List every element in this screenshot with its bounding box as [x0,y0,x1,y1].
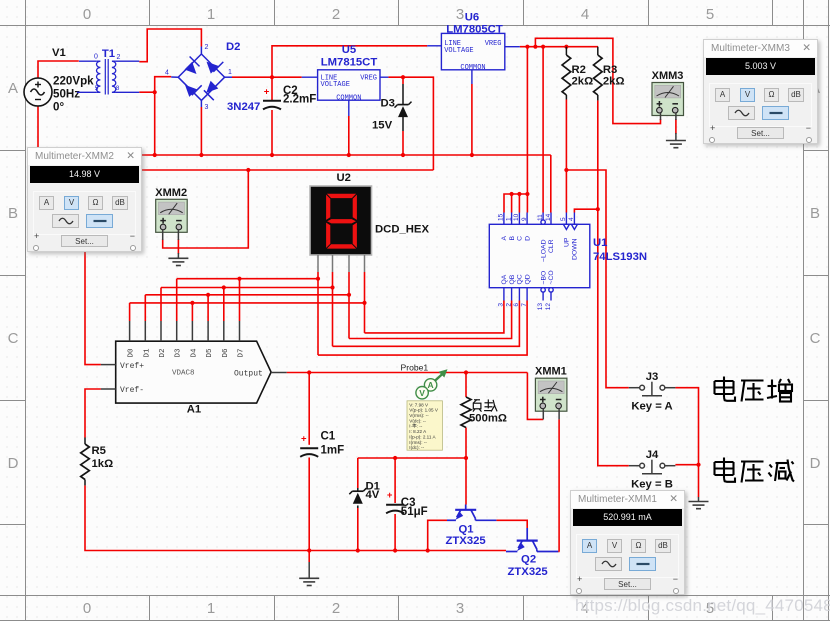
junction D input [525,192,529,196]
wire bridge pin1 to U5 LINE (raw DC node) [232,76,302,78]
wire R2 bottom to UP pin [565,100,567,213]
svg-text:D6: D6 [222,348,230,358]
wire C2 bottom to ground bus [271,110,273,155]
wire D5 riser [207,295,209,321]
wire Q1 collector to Q2 base [496,520,527,528]
zener diode D1 [357,488,359,491]
svg-text:+: + [301,434,307,445]
bracket U2 pin2 to U1 QC [333,301,520,347]
junction C2 top [270,75,274,79]
bracket U2 pin4 to U1 QA [365,301,504,333]
multimeter icon XMM2 [155,187,187,233]
weave horizontal line D3/D7 to U2 pin1 [177,278,318,280]
svg-text:Vref+: Vref+ [120,362,144,371]
ground below C1 rail [308,562,310,578]
svg-text:T1: T1 [102,48,115,60]
svg-text:1: 1 [207,600,215,617]
wire D2 riser [160,288,162,322]
svg-text:2.2mF: 2.2mF [283,93,316,105]
svg-text:VREG: VREG [360,75,377,83]
svg-text:1mF: 1mF [321,445,345,457]
svg-text:D4: D4 [190,348,198,358]
wire T1 pin3 to node [139,91,154,93]
svg-text:D1: D1 [143,348,151,358]
transistor Q1 ZTX325 [447,505,496,521]
svg-text:1: 1 [228,69,232,76]
wire C1 top column [308,373,310,445]
svg-text:5: 5 [560,217,567,221]
svg-text:11: 11 [537,214,544,221]
junction B input [510,192,514,196]
junction U2 pin4 col [362,301,366,305]
svg-text:V1: V1 [52,47,66,59]
wire D1/C3 top line [358,457,466,459]
XMM3 lead stubs [660,113,662,120]
svg-text:QC: QC [517,274,524,284]
wire XMM1 minus down to Q2 collector [558,419,560,551]
svg-text:Q1: Q1 [458,524,473,536]
wire R5 bottom to ground rail [85,485,506,550]
junction XMM3 sense [533,45,537,49]
big label dianyazeng (voltage up) [715,377,736,401]
wire bridge pin3 to ground bus [200,107,202,155]
wire J3 right to common ground [675,388,698,465]
svg-text:V(dc): --: V(dc): -- [409,418,426,423]
wire bridge pin4 to node and ground bus [155,77,172,155]
csdn watermark [575,596,830,616]
wire raw DC up-over to U6 LINE [272,46,427,101]
U2 display pins [317,255,319,272]
svg-text:XMM3: XMM3 [652,70,684,82]
svg-text:CLR: CLR [548,239,555,253]
svg-text:15V: 15V [372,120,393,132]
switch J4 [629,460,676,474]
wire D3 leads [402,77,404,84]
multimeter dialog XMM2 [27,147,142,252]
bridge rectifier D2 [171,47,232,108]
svg-text:74LS193N: 74LS193N [593,251,647,263]
wire U5 VREG +15V to D3 and down-around [388,77,433,170]
svg-text:2: 2 [117,54,121,61]
+15V return line to XMM2 [135,169,433,171]
svg-text:0°: 0° [53,101,64,114]
svg-text:C: C [810,330,821,347]
svg-text:XMM2: XMM2 [155,187,187,199]
resistor R2 [565,47,567,55]
wire bus down to CLR pin [550,155,552,213]
wire DOWN pin link [574,209,597,212]
junction U2 pin2 col [330,285,334,289]
svg-text:+: + [264,86,270,97]
wire Q2 collector red stub [558,551,559,553]
junction U2 pin1 col [316,277,320,281]
svg-text:ZTX325: ZTX325 [508,566,548,578]
svg-text:1: 1 [207,6,215,23]
voltage regulator U6 LM7805CT [427,33,520,84]
svg-text:D0: D0 [128,348,136,358]
svg-text:4: 4 [568,217,575,221]
svg-text:A: A [428,380,434,390]
wire D1 bottom [357,508,359,551]
XMM3 minus lead red part [675,119,677,134]
svg-text:C: C [517,236,524,241]
seven segment display U2 [310,186,372,255]
switch J3 [629,382,676,396]
svg-text:51μF: 51μF [401,506,428,518]
junction D6 [222,285,226,289]
wire Vref- to R5 [85,389,101,438]
svg-text:D3: D3 [175,348,183,358]
junction C1 gnd [307,548,311,552]
junction A-D feed [525,45,529,49]
junction J3 branch [564,168,568,172]
svg-text:A: A [8,80,18,97]
svg-text:2: 2 [332,6,340,23]
svg-text:Probe1: Probe1 [401,362,429,372]
svg-text:7: 7 [521,303,528,307]
svg-text:Q2: Q2 [521,554,536,566]
svg-text:V: 7.98 V: V: 7.98 V [409,402,429,407]
svg-text:~CO: ~CO [548,270,555,284]
svg-text:4: 4 [165,70,169,77]
wire to J3 switch [566,170,628,388]
svg-text:0: 0 [94,54,98,61]
junction U5 common / bus [347,153,351,157]
svg-text:Output: Output [234,369,263,378]
multimeter icon XMM3 [652,70,684,116]
svg-text:8: 8 [116,85,120,92]
svg-text:14: 14 [545,213,552,221]
zener D1 symbol [352,490,363,492]
svg-text:D2: D2 [159,348,167,357]
svg-text:XMM1: XMM1 [535,366,567,378]
A1 pin stubs [101,321,287,389]
svg-text:10: 10 [513,213,520,221]
counter U1 74LS193N [489,213,590,301]
wire load resistor leads [465,373,467,398]
wire D0 riser [129,303,131,321]
weave horizontal line D1/D5 to U2 pin3 [145,294,349,296]
svg-text:U2: U2 [337,172,351,184]
svg-text:D3: D3 [381,98,395,110]
ground below J3/J4 [698,497,700,502]
junction C3 top [393,456,397,460]
svg-text:Key = B: Key = B [631,479,673,491]
svg-text:R5: R5 [92,445,106,457]
junction D5 [206,293,210,297]
wire T1 pin2 to bridge top [139,29,201,62]
svg-text:VOLTAGE: VOLTAGE [321,81,350,89]
svg-text:B: B [8,205,18,222]
svg-text:DCD_HEX: DCD_HEX [375,224,429,236]
wire D3 riser [176,279,178,321]
transformer T1 [77,59,139,95]
wire U6 COMMON to bus [471,84,473,155]
svg-text:C: C [8,330,19,347]
AC source V1 [24,78,52,106]
wire D6 riser [223,288,225,322]
svg-text:QB: QB [509,274,516,284]
XMM2 minus lead red [177,239,179,254]
svg-text:R2: R2 [572,64,586,76]
junction on ground bus [153,153,157,157]
svg-text:3N247: 3N247 [227,101,260,113]
svg-text:2: 2 [332,600,340,617]
wire D7 riser [239,279,241,321]
svg-text:~BO: ~BO [540,271,547,285]
capacitor C2 [263,100,281,102]
junction D3 top [401,75,405,79]
ground stem below rail [308,551,310,563]
ground below XMM3 [666,140,686,142]
transistor Q2 ZTX325 [506,528,558,552]
wire Vref+ from behind dialog [85,251,101,365]
svg-text:I(p-p): 2.11 A: I(p-p): 2.11 A [409,434,436,439]
wire C3 bottom [394,514,396,551]
svg-text:D: D [810,455,821,472]
svg-text:A: A [501,236,508,241]
svg-text:LM7805CT: LM7805CT [446,24,503,36]
svg-text:I(rms): --: I(rms): -- [409,440,427,445]
svg-text:4: 4 [581,6,589,23]
multimeter icon XMM1 [535,366,567,412]
svg-text:2kΩ: 2kΩ [603,76,625,88]
junction Q1 emitter [426,548,430,552]
svg-text:ZTX325: ZTX325 [446,535,486,547]
junction C3 bottom [393,548,397,552]
svg-text:+: + [387,490,393,501]
svg-text:COMMON: COMMON [460,64,485,72]
svg-text:LM7815CT: LM7815CT [321,57,378,69]
wire output down to XMM1 plus [527,373,543,420]
wire V1 bottom [37,106,39,148]
svg-text:9: 9 [521,217,528,221]
junction LOAD feed [541,45,545,49]
svg-text:D2: D2 [226,41,240,53]
svg-text:VOLTAGE: VOLTAGE [444,47,473,55]
svg-text:U1: U1 [593,237,607,249]
svg-text:500mΩ: 500mΩ [469,413,507,425]
junction Q1 base node [464,456,468,460]
svg-text:I: 8.22 A: I: 8.22 A [409,429,427,434]
svg-text:VDAC8: VDAC8 [172,370,195,378]
capacitor C1 [300,447,318,449]
big label dianyajian (voltage down) [715,458,736,482]
svg-text:0: 0 [83,6,91,23]
probe tooltip box [407,401,442,450]
svg-text:QD: QD [524,274,531,284]
svg-text:Vref-: Vref- [120,386,144,395]
svg-text:3: 3 [456,600,464,617]
svg-text:QA: QA [501,274,508,284]
wire R3 bottom through DOWN junction to J4 [598,100,629,465]
multimeter dialog XMM1 [570,490,685,595]
DAC A1 VDAC8 [116,341,271,403]
bracket U2 pin1 to U1 QD [318,301,527,356]
junction R2 top [564,45,568,49]
+5V rail from U6 VREG [520,46,598,48]
svg-text:2kΩ: 2kΩ [572,76,594,88]
junction DOWN pin [596,207,600,211]
ground below XMM2 [168,257,188,259]
svg-text:U5: U5 [342,44,356,56]
wire Q1 base riser [465,458,467,505]
wire XMM3 sense path [535,38,660,123]
resistor R5 [84,438,86,445]
multimeter dialog XMM3 [703,39,818,144]
junction J3/J4 ground node [696,463,700,467]
svg-text:B: B [509,236,516,241]
svg-text:50Hz: 50Hz [53,88,80,101]
resistor R3 [597,47,599,55]
junction U6 common / bus [470,153,474,157]
weave horizontal line D0/D4 to U2 pin4 [130,302,365,304]
wire D1 riser [144,295,146,321]
svg-text:3: 3 [498,303,505,307]
junction bridge-3 / bus [199,153,203,157]
junction C input [517,192,521,196]
junction U2 pin3 col [347,293,351,297]
junction load top [464,370,468,374]
svg-text:2: 2 [205,44,209,51]
zener D3 symbol [398,104,409,106]
weave horizontal line D2/D6 to U2 pin2 [161,287,333,289]
svg-text:1kΩ: 1kΩ [92,458,114,470]
U2 pin columns down to brackets [317,272,319,355]
svg-text:3: 3 [456,6,464,23]
wire XMM2 probe branch [163,170,249,248]
wire +5V down to U1 A-D inputs [504,47,527,213]
svg-text:D7: D7 [238,348,246,357]
junction C2 bottom / bus [270,153,274,157]
zener diode D3 [402,84,404,105]
svg-text:J3: J3 [646,371,659,383]
voltage regulator U5 LM7815CT [302,70,389,116]
svg-text:VREG: VREG [485,40,502,48]
svg-text:13: 13 [537,303,544,311]
svg-text:J4: J4 [646,449,659,461]
svg-text:4V: 4V [366,489,380,501]
svg-text:Key = A: Key = A [631,401,672,413]
wire C1 bottom [308,458,310,551]
svg-text:5: 5 [706,6,714,23]
svg-text:1: 1 [505,217,512,221]
svg-text:UP: UP [564,237,571,247]
svg-text:C1: C1 [321,431,336,443]
svg-text:5: 5 [95,85,99,92]
svg-text:15: 15 [498,213,505,221]
junction D1 bottom [356,548,360,552]
svg-text:6: 6 [513,303,520,307]
svg-text:A1: A1 [187,404,201,416]
svg-text:V(rms): --: V(rms): -- [409,413,429,418]
load resistor 500mohm [461,397,471,428]
svg-text:0: 0 [83,600,91,617]
junction T1 sec low / bridge-4 [153,90,157,94]
junction D3 bottom / bus [401,153,405,157]
junction C1 top [307,370,311,374]
svg-text:D: D [8,455,19,472]
svg-text:U6: U6 [465,12,479,24]
svg-text:D: D [524,236,531,241]
svg-text:12: 12 [545,303,552,311]
wire V1 top to T1 pin0 [38,61,79,78]
svg-text:R3: R3 [603,64,617,76]
wire J4 right to ground [675,464,698,466]
svg-text:D5: D5 [206,348,214,358]
wire +5V down to ~LOAD pin [542,47,544,213]
junction D4 [190,301,194,305]
svg-text:COMMON: COMMON [336,95,361,103]
svg-text:V(p-p): 1.05 V: V(p-p): 1.05 V [409,408,439,413]
capacitor C3 [386,504,404,506]
svg-text:3: 3 [205,104,209,111]
svg-text:V: V [419,388,425,398]
wire D4 riser [191,303,193,321]
svg-text:220Vpk: 220Vpk [53,75,94,88]
label fuzai (load) glyphs [473,399,497,411]
bracket U2 pin3 to U1 QB [349,301,512,339]
svg-text:2: 2 [505,303,512,307]
svg-text:DOWN: DOWN [572,238,579,260]
svg-text:B: B [810,205,820,222]
junction D7 [237,277,241,281]
wire Q1 emitter to rail [428,520,447,550]
svg-text:I(dc): --: I(dc): -- [409,445,424,450]
junction XMM2 branch [246,168,250,172]
wire U5 COMMON to bus [348,116,350,155]
output net horizontal [287,372,528,374]
ground bus horizontal [135,154,551,156]
svg-text:~LOAD: ~LOAD [540,239,547,262]
